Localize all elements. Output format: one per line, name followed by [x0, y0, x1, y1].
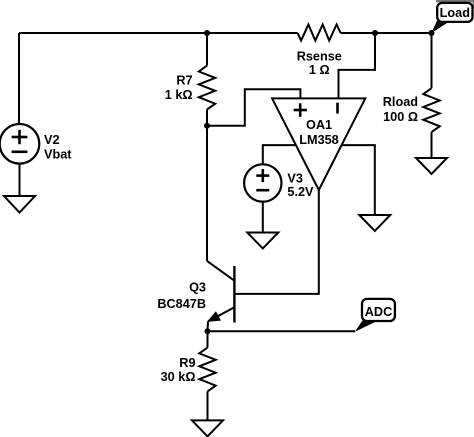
svg-text:Load: Load: [440, 6, 470, 20]
ground: op-amp negative supply: [359, 215, 390, 231]
flag ADC: [355, 299, 395, 332]
wire: R9 bottom lead: [207, 391, 209, 420]
node: sense junction: [372, 30, 378, 36]
resistor R9: [199, 348, 215, 392]
wire: emitter node to R9: [207, 331, 209, 347]
svg-text:V2: V2: [44, 133, 60, 147]
op-amp minus input mark: [336, 103, 339, 114]
ground: below V2: [4, 196, 35, 213]
svg-text:ADC: ADC: [365, 305, 393, 319]
wire: R7 top lead: [206, 33, 208, 66]
voltage source V2: [0, 124, 39, 164]
label OA1 LM358: [299, 118, 339, 147]
label Q3 BC847B: [157, 280, 206, 311]
node: R7 bottom junction: [204, 123, 210, 129]
svg-text:Vbat: Vbat: [44, 148, 72, 162]
op-amp plus input mark: [294, 103, 307, 117]
wire: Rload bottom lead: [431, 132, 433, 158]
flag Load: [432, 3, 473, 33]
ground: below Rload: [416, 158, 447, 174]
wire: V2 negative lead: [19, 164, 21, 196]
wire: Rsense to Load node: [341, 32, 432, 34]
voltage source V3: [244, 164, 281, 201]
svg-text:Rload: Rload: [383, 95, 418, 109]
wire: sense node to op-amp inverting input: [339, 33, 376, 98]
svg-text:R7: R7: [176, 73, 192, 87]
svg-text:1 Ω: 1 Ω: [309, 63, 330, 77]
wire: top rail from V2 to Rsense: [19, 32, 298, 34]
label V3 5.2V: [287, 172, 314, 200]
label V2 Vbat: [44, 133, 72, 162]
label Rsense 1 Ω: [297, 49, 342, 77]
label R7 1 kΩ: [165, 73, 193, 102]
ground: below R9: [192, 420, 223, 436]
node: load junction: [429, 30, 435, 36]
svg-text:100 Ω: 100 Ω: [383, 110, 418, 124]
wire: R7 bottom lead: [206, 110, 208, 126]
wire: op-amp output to Q3 base: [234, 190, 318, 294]
svg-text:Q3: Q3: [189, 280, 206, 294]
svg-text:BC847B: BC847B: [157, 297, 206, 311]
label Rload 100 Ω: [383, 95, 418, 124]
wire: R7 node to op-amp non-inverting input: [207, 89, 300, 126]
ground: below V3: [247, 233, 278, 249]
svg-text:1 kΩ: 1 kΩ: [165, 88, 193, 102]
node: emitter junction: [205, 328, 211, 334]
wire: op-amp negative supply rail: [342, 145, 375, 215]
resistor Rload: [423, 88, 439, 132]
wire: R7 node down to Q3 collector: [206, 126, 208, 261]
transistor Q3: [207, 261, 234, 331]
wire: emitter node to ADC flag: [208, 330, 356, 332]
resistor Rsense: [298, 25, 341, 41]
wire: load node down to Rload: [431, 33, 433, 88]
svg-text:Rsense: Rsense: [297, 49, 342, 63]
wire: V2 positive lead: [18, 33, 20, 124]
svg-text:R9: R9: [179, 356, 195, 370]
wire: op-amp positive supply rail to V3: [263, 145, 296, 164]
svg-text:5.2V: 5.2V: [287, 185, 314, 199]
resistor R7: [199, 66, 215, 110]
svg-text:OA1: OA1: [306, 118, 332, 132]
label R9 30 kΩ: [161, 356, 196, 384]
svg-text:30 kΩ: 30 kΩ: [161, 370, 196, 384]
op-amp OA1 triangle: [272, 98, 365, 190]
svg-text:LM358: LM358: [299, 133, 339, 147]
wire: V3 negative lead: [262, 202, 264, 233]
svg-text:V3: V3: [287, 172, 303, 186]
node: R7 top junction: [204, 30, 210, 36]
